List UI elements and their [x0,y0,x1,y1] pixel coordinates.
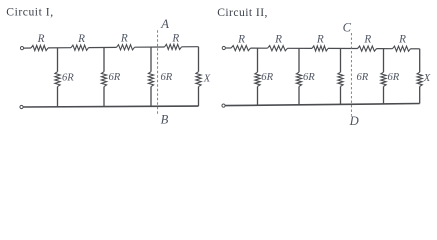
svg-text:6R: 6R [357,72,369,83]
wire: circuit I top segment 1 [24,47,31,49]
svg-text:Circuit I,: Circuit I, [6,6,53,19]
resistor R (circuit II series #5) [393,33,411,51]
resistor R (circuit I series #1) [31,33,48,50]
svg-text:B: B [161,112,169,126]
svg-text:R: R [120,33,128,45]
resistor R (circuit II series #4) [358,33,377,51]
svg-text:6R: 6R [62,72,74,83]
svg-text:Circuit II,: Circuit II, [217,6,268,19]
resistor 6R (circuit I shunt #2) [101,48,120,107]
wire: circuit II top segment 2 [251,47,268,49]
svg-text:6R: 6R [109,72,121,83]
svg-text:R: R [316,33,324,45]
resistor R (circuit I series #4) [165,32,182,49]
wire: circuit I bottom rail [23,105,198,108]
wire: circuit II top segment 1 [226,47,231,49]
svg-text:R: R [274,33,282,45]
resistor X (circuit II right edge) [417,49,431,104]
svg-text:R: R [398,33,406,45]
svg-text:X: X [203,73,211,84]
resistor 6R (circuit I shunt #3) [148,47,172,106]
svg-text:R: R [363,33,371,45]
resistor R (circuit I series #3) [117,33,135,50]
svg-text:R: R [237,33,245,45]
node C (dashed cut line C-D, circuit II) [343,20,352,115]
resistor 6R (circuit II shunt #3) [338,49,369,105]
node A (dashed cut line A-B, circuit I) [158,17,170,114]
svg-text:6R: 6R [303,72,315,83]
wire: circuit I top segment 3 [89,46,117,48]
resistor 6R (circuit II shunt #1) [255,48,274,105]
svg-text:C: C [343,20,352,34]
wire: circuit II top segment 5 [377,48,393,50]
svg-text:A: A [160,17,169,31]
terminal: circuit I bottom-left input [20,105,23,108]
resistor R (circuit II series #3) [312,33,328,51]
resistor 6R (circuit I shunt #1) [55,48,74,107]
resistor X (circuit I right edge) [196,47,211,106]
svg-text:R: R [171,32,179,44]
resistor R (circuit II series #1) [231,33,251,50]
wire: circuit I top segment 5 [182,46,199,48]
svg-text:X: X [423,73,431,84]
resistor R (circuit II series #2) [268,33,288,50]
resistor 6R (circuit II shunt #4) [381,49,400,104]
wire: circuit II top segment 3 [288,47,313,49]
wire: circuit II top segment 6 [411,48,420,50]
resistor R (circuit I series #2) [71,33,89,50]
terminal: circuit II bottom-left input [222,104,225,107]
terminal: circuit II top-left input [222,46,225,49]
terminal: circuit I top-left input [20,47,23,50]
svg-text:R: R [37,33,45,45]
wire: circuit II top segment 4 [328,47,358,49]
svg-text:6R: 6R [261,72,273,83]
svg-text:6R: 6R [388,72,400,83]
svg-text:R: R [77,33,85,45]
svg-text:D: D [349,114,359,128]
wire: circuit II bottom rail [225,104,419,106]
resistor 6R (circuit II shunt #2) [296,48,315,105]
wire: circuit I top segment 4 [135,46,165,48]
wire: circuit I top segment 2 [48,47,71,49]
svg-text:6R: 6R [161,72,173,83]
